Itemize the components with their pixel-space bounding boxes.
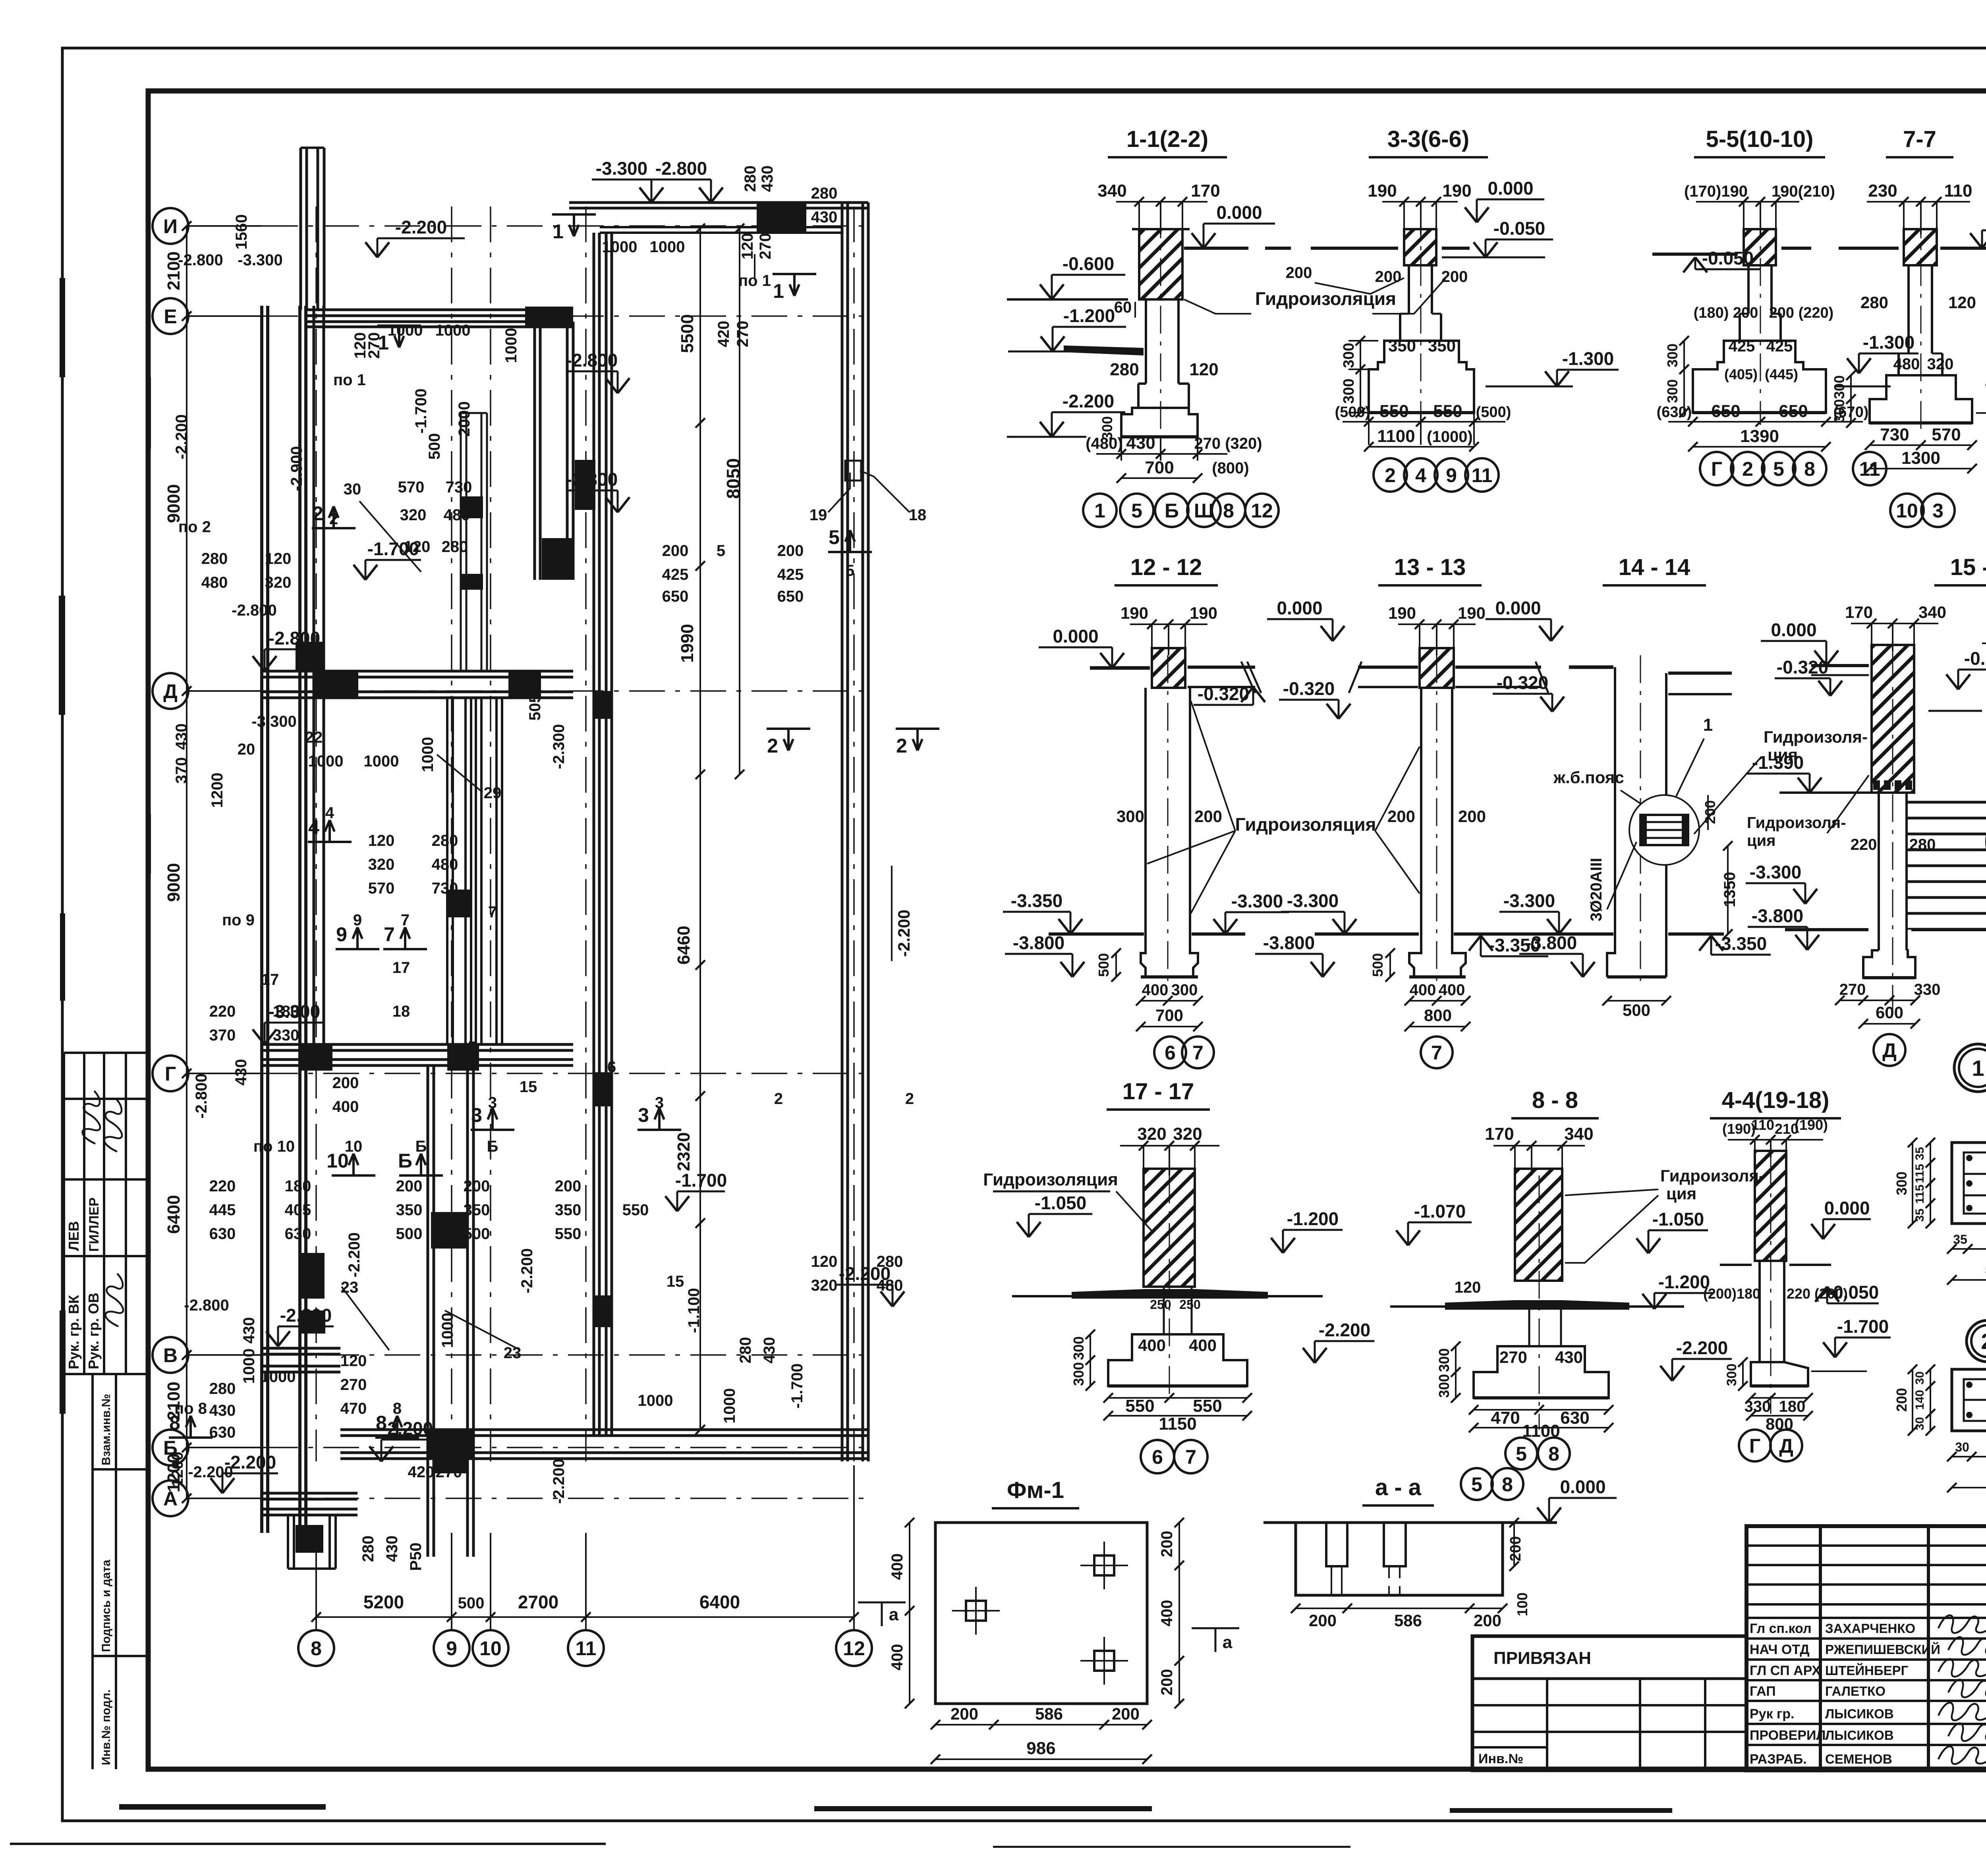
svg-text:190: 190: [1190, 604, 1217, 622]
junction block E: [525, 307, 573, 328]
svg-text:3Ø20АIII: 3Ø20АIII: [1588, 858, 1605, 921]
svg-text:Рук. гр. ВК: Рук. гр. ВК: [66, 1295, 82, 1369]
svg-text:-2.300: -2.300: [550, 724, 568, 769]
svg-text:5-5(10-10): 5-5(10-10): [1706, 126, 1814, 152]
svg-text:120: 120: [265, 550, 292, 567]
svg-text:320: 320: [811, 1277, 838, 1294]
svg-text:-2.200: -2.200: [224, 1452, 276, 1473]
svg-text:300: 300: [1070, 1362, 1087, 1386]
svg-text:220: 220: [209, 1177, 236, 1195]
svg-text:-3.350: -3.350: [1011, 890, 1063, 911]
svg-text:1: 1: [773, 280, 784, 302]
svg-text:0.000: 0.000: [1495, 598, 1541, 618]
svg-text:-1.300: -1.300: [1562, 348, 1614, 369]
svg-text:8: 8: [1502, 1473, 1513, 1496]
svg-text:190: 190: [1121, 604, 1148, 622]
svg-text:470: 470: [1491, 1408, 1520, 1428]
svg-text:650: 650: [777, 588, 804, 605]
15-15 left stem: [1878, 793, 1880, 950]
svg-text:425: 425: [1766, 338, 1793, 355]
svg-text:570: 570: [368, 880, 395, 897]
svg-text:-1.200: -1.200: [1287, 1208, 1339, 1229]
svg-text:12 - 12: 12 - 12: [1130, 554, 1202, 580]
svg-text:-1.700: -1.700: [675, 1170, 727, 1191]
svg-text:200: 200: [396, 1177, 423, 1195]
svg-text:2: 2: [905, 1090, 914, 1108]
svg-text:-1.100: -1.100: [685, 1288, 703, 1333]
svg-text:4: 4: [1415, 464, 1426, 486]
svg-text:Инв.№ подл.: Инв.№ подл.: [100, 1689, 113, 1765]
15-15 left footing: [1863, 950, 1915, 978]
svg-text:250: 250: [1150, 1297, 1171, 1312]
svg-text:-0.320: -0.320: [1283, 678, 1335, 699]
svg-text:630: 630: [209, 1424, 236, 1441]
svg-text:0.000: 0.000: [1824, 1198, 1870, 1218]
wall along axis D: [262, 670, 573, 673]
svg-text:120: 120: [811, 1253, 838, 1270]
svg-text:300: 300: [1831, 399, 1847, 423]
svg-text:470: 470: [340, 1400, 367, 1417]
svg-text:1000: 1000: [240, 1349, 258, 1384]
svg-text:200: 200: [1893, 1388, 1910, 1412]
svg-text:5: 5: [717, 542, 725, 560]
svg-text:-2.200: -2.200: [894, 909, 913, 957]
svg-text:15: 15: [520, 1078, 537, 1096]
svg-text:-3.300: -3.300: [1503, 890, 1555, 911]
svg-text:22: 22: [305, 729, 323, 746]
svg-text:200: 200: [1474, 1611, 1501, 1630]
svg-text:(630): (630): [1657, 404, 1692, 421]
anchor squares: [966, 1601, 986, 1621]
svg-text:400: 400: [332, 1098, 359, 1116]
svg-text:1000: 1000: [721, 1388, 738, 1424]
svg-text:12: 12: [843, 1637, 865, 1660]
svg-text:В: В: [163, 1344, 178, 1366]
svg-text:-3.300: -3.300: [238, 251, 282, 269]
svg-text:8: 8: [1804, 458, 1815, 480]
svg-text:1000: 1000: [439, 1313, 456, 1348]
svg-text:-2.200: -2.200: [173, 414, 190, 459]
svg-text:650: 650: [1779, 401, 1808, 421]
svg-text:110: 110: [1751, 1117, 1774, 1133]
svg-text:а - а: а - а: [1375, 1475, 1422, 1500]
svg-text:500: 500: [1370, 953, 1386, 977]
svg-text:10: 10: [479, 1637, 502, 1660]
svg-text:220: 220: [1851, 836, 1877, 853]
svg-text:СЕМЕНОВ: СЕМЕНОВ: [1825, 1752, 1892, 1766]
svg-text:-2.200: -2.200: [1063, 391, 1114, 411]
svg-text:(180) 200: (180) 200: [1694, 305, 1758, 321]
svg-text:30: 30: [1955, 1440, 1969, 1454]
svg-text:100: 100: [1514, 1592, 1530, 1616]
svg-text:-2.800: -2.800: [280, 1305, 332, 1326]
svg-text:280: 280: [359, 1536, 377, 1562]
svg-text:(800): (800): [1212, 459, 1249, 477]
svg-text:280: 280: [442, 538, 468, 556]
svg-text:300: 300: [1117, 807, 1144, 826]
svg-text:200: 200: [1375, 268, 1402, 286]
svg-text:Г: Г: [1711, 458, 1722, 480]
svg-text:2: 2: [1981, 1329, 1986, 1354]
svg-text:(200)180: (200)180: [1703, 1285, 1760, 1302]
svg-text:6400: 6400: [699, 1592, 740, 1612]
svg-text:РЖЕПИШЕВСКИЙ: РЖЕПИШЕВСКИЙ: [1825, 1642, 1940, 1657]
svg-text:570: 570: [1932, 425, 1961, 444]
svg-text:7: 7: [1431, 1042, 1442, 1064]
svg-text:200: 200: [1441, 268, 1468, 286]
svg-text:350: 350: [1428, 336, 1456, 355]
svg-text:ГАП: ГАП: [1750, 1684, 1776, 1699]
svg-text:(170)190: (170)190: [1684, 183, 1748, 200]
svg-text:650: 650: [1711, 401, 1740, 421]
svg-text:по 1: по 1: [333, 371, 366, 389]
junction block: [542, 538, 574, 580]
svg-text:200: 200: [1158, 1669, 1176, 1696]
svg-text:570: 570: [398, 479, 425, 496]
svg-text:30: 30: [344, 481, 361, 498]
svg-text:270: 270: [734, 321, 752, 347]
svg-text:140: 140: [1913, 1390, 1926, 1410]
svg-text:5: 5: [1773, 458, 1784, 480]
svg-text:730: 730: [446, 479, 472, 496]
svg-text:Инв.№: Инв.№: [1478, 1751, 1523, 1766]
svg-text:-0.320: -0.320: [1497, 672, 1548, 693]
svg-text:120: 120: [368, 832, 395, 849]
svg-text:200: 200: [1286, 264, 1312, 282]
svg-text:986: 986: [1026, 1739, 1055, 1758]
svg-text:по 9: по 9: [222, 911, 255, 929]
svg-text:4-4(19-18): 4-4(19-18): [1722, 1087, 1830, 1113]
svg-text:586: 586: [1035, 1704, 1063, 1723]
junction block on right wing top wall: [757, 203, 806, 232]
svg-text:9000: 9000: [164, 484, 184, 523]
svg-text:190: 190: [1458, 604, 1486, 622]
svg-text:200: 200: [777, 542, 804, 560]
svg-text:300: 300: [1664, 379, 1681, 403]
axis letter circles: [153, 208, 188, 244]
svg-text:200: 200: [1112, 1704, 1140, 1723]
svg-text:Д: Д: [1882, 1039, 1897, 1062]
axis circles 1,5,Б,Ш,8,12: [1083, 494, 1117, 527]
svg-text:-1.050: -1.050: [1652, 1209, 1704, 1229]
svg-text:-1.700: -1.700: [367, 538, 419, 559]
svg-text:1: 1: [553, 220, 564, 243]
svg-text:15: 15: [667, 1273, 684, 1290]
svg-text:35: 35: [1913, 1147, 1926, 1160]
svg-text:270: 270: [1839, 981, 1866, 998]
svg-text:Взам.инв.№: Взам.инв.№: [100, 1394, 113, 1465]
svg-text:190: 190: [1388, 604, 1416, 622]
svg-text:-0.320: -0.320: [1777, 657, 1828, 677]
wall: interior vertical right of left wing (upper): [533, 322, 536, 580]
svg-text:5: 5: [829, 526, 840, 548]
svg-text:(190): (190): [1795, 1117, 1828, 1133]
svg-text:-3.300: -3.300: [1287, 890, 1339, 911]
svg-text:200: 200: [464, 1177, 490, 1195]
svg-text:-2.800: -2.800: [269, 628, 320, 648]
svg-text:320: 320: [1173, 1124, 1202, 1144]
svg-text:7: 7: [384, 923, 395, 946]
svg-text:425: 425: [777, 566, 804, 583]
15-15 ladder hatch: [1907, 793, 1986, 930]
svg-text:Б: Б: [1165, 500, 1179, 522]
svg-text:-1.700: -1.700: [412, 388, 430, 433]
svg-text:-3.800: -3.800: [1013, 932, 1064, 953]
svg-text:700: 700: [1145, 458, 1174, 477]
svg-text:220: 220: [209, 1003, 236, 1020]
svg-text:ЛЫСИКОВ: ЛЫСИКОВ: [1825, 1728, 1894, 1743]
svg-text:190: 190: [1442, 181, 1471, 201]
svg-text:1000: 1000: [261, 1368, 296, 1386]
svg-text:300: 300: [1724, 1364, 1739, 1386]
level flags in plan: [377, 237, 465, 239]
svg-text:120: 120: [340, 1352, 367, 1370]
svg-text:4: 4: [308, 816, 319, 838]
svg-text:-3.300: -3.300: [269, 1001, 320, 1022]
svg-text:1990: 1990: [678, 624, 697, 663]
svg-text:11: 11: [1472, 464, 1493, 486]
bottom axis circles and dimension chain: [298, 1630, 334, 1666]
svg-text:17: 17: [261, 971, 279, 988]
svg-text:11: 11: [576, 1637, 597, 1660]
svg-text:320: 320: [400, 506, 427, 524]
stubs below A: [287, 1515, 289, 1569]
svg-text:200: 200: [1702, 800, 1718, 824]
svg-text:280: 280: [1110, 360, 1139, 379]
svg-text:480: 480: [444, 506, 470, 524]
svg-text:630: 630: [285, 1225, 311, 1243]
svg-text:-2.200: -2.200: [518, 1248, 536, 1293]
svg-text:6: 6: [1165, 1042, 1176, 1064]
svg-text:-2.900: -2.900: [288, 446, 305, 491]
svg-text:(1000): (1000): [1427, 428, 1473, 446]
svg-text:ция: ция: [1666, 1184, 1696, 1203]
right plan dimension chains vertical: [699, 228, 701, 1430]
svg-text:1350: 1350: [1721, 872, 1739, 907]
svg-text:-1.050: -1.050: [1035, 1193, 1086, 1213]
section marks in plan: [377, 324, 421, 327]
wall along axis B(6): [340, 1428, 868, 1431]
svg-text:НАЧ ОТД: НАЧ ОТД: [1750, 1642, 1809, 1657]
svg-text:300: 300: [1171, 981, 1198, 999]
wall at axis A: [262, 1492, 357, 1495]
svg-text:8: 8: [169, 1412, 180, 1434]
svg-text:300: 300: [1831, 375, 1847, 399]
svg-text:-2.800: -2.800: [566, 350, 618, 371]
svg-text:550: 550: [1433, 401, 1462, 421]
svg-text:-2.800: -2.800: [178, 251, 223, 269]
svg-text:280: 280: [737, 1337, 754, 1364]
svg-text:3: 3: [638, 1104, 649, 1126]
svg-text:0.000: 0.000: [1053, 626, 1098, 647]
wall: top stub above E: [299, 148, 302, 310]
svg-text:270 (320): 270 (320): [1194, 435, 1262, 452]
svg-text:Д: Д: [163, 680, 178, 703]
svg-text:Фм-1: Фм-1: [1007, 1477, 1064, 1503]
15-15 left hatched wall: [1872, 645, 1914, 793]
svg-text:-1.700: -1.700: [788, 1363, 806, 1408]
svg-text:1: 1: [1703, 715, 1713, 735]
svg-text:430: 430: [240, 1317, 258, 1344]
svg-text:190: 190: [1368, 181, 1397, 201]
svg-text:по 1: по 1: [738, 272, 771, 290]
svg-text:1000: 1000: [602, 238, 638, 256]
svg-text:1200: 1200: [209, 773, 226, 808]
svg-text:по 10: по 10: [253, 1138, 295, 1155]
svg-text:320: 320: [1927, 355, 1954, 373]
svg-text:420: 420: [715, 321, 732, 347]
svg-text:Б: Б: [415, 1138, 427, 1155]
svg-text:300: 300: [1341, 343, 1357, 368]
svg-text:17 - 17: 17 - 17: [1122, 1079, 1194, 1104]
svg-text:Гидроизоляция: Гидроизоляция: [983, 1170, 1118, 1189]
svg-text:270: 270: [1499, 1348, 1527, 1366]
svg-text:400: 400: [889, 1644, 906, 1671]
svg-text:ГИЛЛЕР: ГИЛЛЕР: [87, 1197, 102, 1252]
svg-text:400: 400: [889, 1554, 906, 1580]
svg-text:ЛЫСИКОВ: ЛЫСИКОВ: [1825, 1706, 1894, 1721]
svg-text:Гидроизоляция: Гидроизоляция: [1235, 814, 1376, 835]
svg-text:550: 550: [1125, 1396, 1154, 1416]
svg-text:-2.800: -2.800: [655, 158, 707, 179]
svg-text:200: 200: [332, 1074, 359, 1092]
svg-text:1000: 1000: [502, 328, 520, 363]
svg-text:17: 17: [392, 959, 410, 977]
svg-text:400: 400: [1142, 981, 1169, 999]
svg-text:Г: Г: [165, 1063, 176, 1085]
svg-text:7: 7: [401, 911, 410, 929]
svg-text:Д: Д: [1779, 1435, 1793, 1457]
svg-text:-2.800: -2.800: [193, 1073, 210, 1118]
left vertical dimension chain: [186, 226, 187, 1498]
svg-text:-2.200: -2.200: [550, 1459, 568, 1504]
svg-text:10: 10: [326, 1150, 349, 1172]
svg-text:115: 115: [1913, 1185, 1926, 1204]
svg-text:1: 1: [378, 332, 389, 354]
svg-text:5: 5: [1516, 1443, 1527, 1465]
svg-text:-1.300: -1.300: [1863, 332, 1915, 353]
15-15 base levels: [1785, 928, 1868, 931]
svg-text:1000: 1000: [364, 753, 399, 770]
svg-text:-2.200: -2.200: [839, 1263, 891, 1284]
svg-text:430: 430: [232, 1059, 250, 1086]
svg-text:420: 420: [408, 1463, 435, 1481]
svg-text:270: 270: [340, 1376, 367, 1393]
svg-text:550: 550: [622, 1201, 649, 1219]
svg-text:586: 586: [1394, 1611, 1422, 1630]
svg-text:200: 200: [950, 1704, 978, 1723]
svg-text:120: 120: [1189, 360, 1218, 379]
svg-text:-3.800: -3.800: [1752, 905, 1803, 926]
svg-text:ПРИВЯЗАН: ПРИВЯЗАН: [1493, 1648, 1591, 1668]
svg-text:340: 340: [1564, 1124, 1593, 1144]
svg-text:500: 500: [1095, 953, 1112, 977]
svg-text:120: 120: [1455, 1279, 1481, 1296]
svg-text:300: 300: [1436, 1348, 1452, 1372]
svg-text:200: 200: [662, 542, 689, 560]
svg-text:630: 630: [1560, 1408, 1589, 1428]
svg-text:Б: Б: [487, 1138, 498, 1155]
svg-text:7: 7: [488, 903, 497, 921]
svg-text:430: 430: [383, 1536, 401, 1562]
svg-text:8050: 8050: [723, 458, 744, 499]
svg-text:3: 3: [471, 1104, 482, 1126]
svg-text:1560: 1560: [233, 214, 250, 250]
svg-text:730: 730: [1880, 425, 1909, 444]
svg-text:190(210): 190(210): [1772, 183, 1835, 200]
svg-text:500: 500: [464, 1225, 490, 1243]
svg-text:430: 430: [1126, 433, 1155, 453]
svg-text:6460: 6460: [674, 926, 694, 965]
svg-text:320: 320: [265, 574, 292, 591]
leader 29 30 23: [437, 755, 483, 792]
svg-text:600: 600: [1876, 1003, 1903, 1022]
svg-text:200: 200: [1309, 1611, 1337, 1630]
svg-text:630: 630: [209, 1225, 236, 1243]
svg-text:60: 60: [1114, 299, 1132, 316]
svg-text:9: 9: [336, 923, 347, 946]
svg-text:170: 170: [1191, 181, 1220, 201]
svg-text:350: 350: [555, 1201, 582, 1219]
svg-text:12: 12: [1251, 500, 1273, 522]
wall stub at axis V: [262, 1347, 340, 1350]
svg-text:200: 200: [1387, 807, 1415, 826]
svg-text:445: 445: [209, 1201, 236, 1219]
svg-text:0.000: 0.000: [1488, 178, 1533, 199]
svg-text:(500): (500): [1476, 404, 1511, 421]
svg-text:(500): (500): [1335, 404, 1370, 421]
fm-1 dims: [1178, 1523, 1180, 1704]
svg-text:а: а: [889, 1605, 899, 1624]
privyazan block: [1472, 1636, 1746, 1770]
svg-text:280: 280: [201, 550, 228, 567]
svg-text:7-7: 7-7: [1903, 126, 1936, 152]
svg-text:8: 8: [1223, 500, 1234, 522]
svg-text:по 2: по 2: [178, 518, 211, 536]
svg-text:Г: Г: [1749, 1435, 1760, 1457]
svg-text:(405): (405): [1724, 366, 1758, 382]
svg-text:280: 280: [432, 832, 458, 849]
svg-text:-3.300: -3.300: [1750, 862, 1801, 882]
svg-text:2Ø12АIII: 2Ø12АIII: [1984, 871, 1986, 932]
svg-text:3: 3: [1932, 500, 1943, 522]
svg-text:ж.б.пояс: ж.б.пояс: [1553, 768, 1624, 787]
svg-text:300: 300: [1070, 1336, 1087, 1360]
svg-text:-1.390: -1.390: [1752, 752, 1804, 773]
svg-text:350: 350: [464, 1201, 490, 1219]
svg-text:2: 2: [1385, 464, 1396, 486]
svg-text:200: 200: [1158, 1531, 1176, 1558]
svg-text:370: 370: [173, 757, 190, 784]
svg-text:400: 400: [1410, 981, 1436, 999]
svg-text:2: 2: [1742, 458, 1753, 480]
svg-text:-2.200: -2.200: [381, 1418, 433, 1439]
svg-text:350: 350: [396, 1201, 423, 1219]
svg-text:10: 10: [1896, 500, 1918, 522]
svg-text:180: 180: [1779, 1398, 1806, 1415]
svg-text:ЛЕВ: ЛЕВ: [66, 1221, 82, 1251]
svg-text:18: 18: [909, 506, 927, 524]
svg-text:320: 320: [368, 856, 395, 873]
svg-text:-0.050: -0.050: [1493, 218, 1545, 239]
svg-text:2: 2: [774, 1090, 783, 1108]
svg-text:400: 400: [1189, 1336, 1217, 1355]
svg-text:120: 120: [739, 233, 756, 260]
svg-text:Е: Е: [164, 305, 177, 328]
svg-text:5200: 5200: [363, 1592, 404, 1612]
svg-text:9: 9: [1446, 464, 1457, 486]
svg-text:23: 23: [341, 1279, 359, 1296]
